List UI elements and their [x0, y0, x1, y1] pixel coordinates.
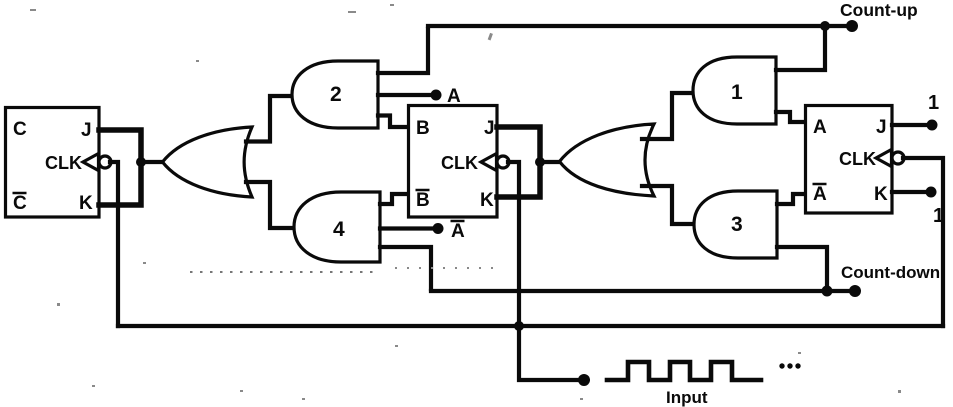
node count-down terminal dot — [849, 285, 861, 297]
wire junction to OR G1 output — [141, 160, 163, 164]
clock triangle U1 — [83, 154, 99, 171]
svg-text:K: K — [480, 190, 494, 211]
wire G1 lower input from AND-4 output — [246, 182, 293, 228]
wire AND-2 input A — [378, 93, 432, 97]
node count-down junction — [822, 286, 833, 297]
svg-text:J: J — [876, 117, 887, 138]
node A terminal dot — [431, 90, 442, 101]
node input terminal dot — [578, 374, 590, 386]
svg-text:1: 1 — [928, 92, 939, 114]
ellipsis dots — [779, 363, 784, 368]
OR gate G2 — [560, 124, 655, 196]
AND gate 4 — [294, 192, 380, 262]
svg-text:J: J — [484, 118, 495, 139]
wire U2 CLK down to input node — [508, 162, 580, 380]
clock triangle U3 — [876, 150, 892, 167]
AND gate 1 — [693, 57, 776, 124]
wire AND-4 input Abar — [380, 226, 432, 230]
wire AND-1 top input to count-up rail — [776, 29, 825, 70]
wire U3 K output — [892, 190, 927, 194]
svg-text:B: B — [416, 190, 430, 211]
wire count-up rail — [428, 24, 852, 28]
wire AND-3 top input from Abar pin — [777, 194, 804, 204]
svg-text:A: A — [813, 117, 827, 138]
svg-text:4: 4 — [333, 218, 345, 241]
svg-text:C: C — [13, 193, 27, 214]
OR gate G1 — [163, 127, 253, 197]
svg-text:K: K — [874, 184, 888, 205]
wire G2 upper input from AND-1 output — [642, 93, 693, 139]
wire G1 upper input from AND-2 output — [246, 96, 291, 142]
flip-flop U3 box (A flip-flop) — [806, 106, 893, 214]
wire junction to OR G2 output — [540, 160, 560, 164]
node Abar terminal dot — [433, 223, 444, 234]
svg-text:CLK: CLK — [45, 153, 82, 173]
wire G2 lower input from AND-3 output — [642, 186, 694, 224]
wire U3 J output — [892, 123, 928, 127]
wire U1 CLK to bottom clock rail — [110, 162, 118, 326]
wire AND-2 top input to count-up rail — [378, 29, 428, 73]
wire AND-1 input from A pin — [776, 112, 804, 122]
wire AND-4 bottom input to count-down rail — [380, 247, 431, 289]
svg-text:A: A — [813, 184, 827, 205]
node U2 JK junction — [535, 157, 545, 167]
svg-text:CLK: CLK — [839, 149, 876, 169]
svg-text:CLK: CLK — [441, 153, 478, 173]
svg-text:A: A — [451, 221, 465, 242]
clock triangle U2 — [481, 154, 497, 171]
svg-text:J: J — [81, 120, 92, 141]
node J output terminal dot — [927, 120, 938, 131]
clock bubble U2 — [497, 156, 509, 168]
clock bubble U1 — [99, 156, 111, 168]
input clock waveform — [607, 362, 761, 380]
wire AND-2 input from B pin — [378, 116, 407, 128]
svg-text:K: K — [79, 193, 93, 214]
AND gate 3 — [694, 191, 777, 258]
node K output terminal dot — [926, 187, 937, 198]
svg-text:A: A — [447, 86, 461, 107]
node clock rail junction — [514, 321, 524, 331]
wire U1 J-K tie — [99, 130, 141, 205]
svg-text:3: 3 — [731, 213, 743, 236]
AND gate 2 — [292, 61, 378, 128]
svg-text:Count-down: Count-down — [841, 263, 940, 282]
flip-flop U1 box (C flip-flop) — [6, 108, 100, 218]
clock bubble U3 — [892, 152, 904, 164]
svg-text:2: 2 — [330, 83, 342, 106]
svg-text:C: C — [13, 119, 27, 140]
wire U3 CLK to bottom clock rail — [903, 158, 943, 326]
node count-up junction — [820, 21, 830, 31]
wire U2 J-K tie — [497, 127, 540, 197]
svg-text:B: B — [416, 118, 430, 139]
node count-up terminal dot — [846, 20, 858, 32]
wire AND-4 top input from Bbar pin — [380, 194, 407, 204]
flip-flop U2 box (B flip-flop) — [409, 106, 498, 218]
wire bottom clock rail — [118, 324, 943, 328]
svg-text:1: 1 — [731, 81, 743, 104]
svg-text:Count-up: Count-up — [840, 0, 918, 20]
decorative dotted scan band — [190, 271, 378, 273]
wire count-down rail — [431, 289, 855, 293]
node U1 JK junction — [136, 157, 146, 167]
svg-text:Input: Input — [666, 388, 708, 407]
wire AND-3 bottom input to count-down rail — [777, 247, 827, 288]
